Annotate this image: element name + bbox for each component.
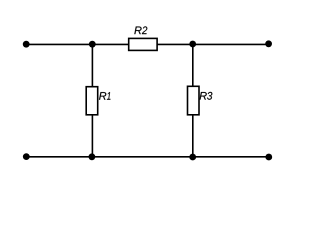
node: bottom junction dot under R1	[89, 153, 96, 160]
resistor R1 body	[86, 87, 98, 115]
wire top rail right segment	[193, 43, 269, 45]
node B junction dot (top, R3)	[189, 41, 196, 48]
wire: node A down to R1 top pin	[91, 44, 93, 86]
resistor R3 value label	[199, 92, 212, 100]
wire top rail left segment	[26, 43, 92, 45]
wire bottom rail middle segment	[92, 156, 193, 158]
wire: node B down to R3 top pin	[192, 44, 194, 86]
node: bottom junction dot under R3	[189, 154, 196, 161]
node: bottom-right terminal dot	[265, 154, 272, 161]
node: top-left terminal dot	[23, 41, 30, 48]
wire top rail: node A to R2 left lead	[92, 43, 128, 45]
node A junction dot (top, R1)	[89, 41, 96, 48]
resistor R2 body	[129, 38, 157, 50]
wire bottom rail left segment	[26, 156, 92, 158]
wire bottom rail right segment	[193, 156, 269, 158]
resistor R3 body	[188, 86, 200, 115]
resistor R1 value label	[99, 92, 110, 100]
node: top-right terminal dot	[265, 40, 272, 47]
wire: R1 bottom pin down to bottom rail	[91, 115, 93, 157]
resistor R2 value label	[134, 26, 147, 34]
node: bottom-left terminal dot	[23, 153, 30, 160]
wire: R2 right lead to node B	[157, 43, 193, 45]
wire: R3 bottom pin down to bottom rail	[192, 115, 194, 157]
